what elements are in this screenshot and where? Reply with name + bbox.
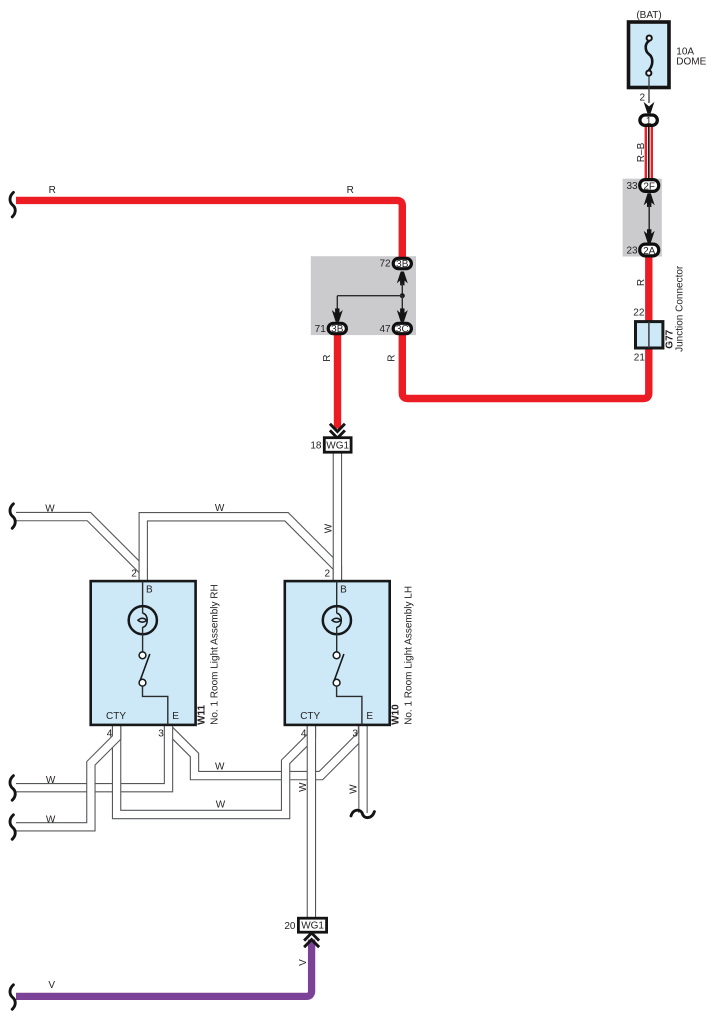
oval 2F — [640, 180, 659, 192]
svg-text:V: V — [298, 959, 309, 966]
svg-text:No. 1 Room Light Assembly RH: No. 1 Room Light Assembly RH — [210, 584, 221, 725]
fuse box 10A DOME — [629, 22, 670, 88]
double chevron arrow into WG1/18 — [330, 424, 345, 438]
svg-text:B: B — [146, 585, 153, 596]
relay block internal line horizontal — [337, 295, 402, 297]
svg-text:V: V — [48, 980, 55, 991]
connector WG1 pin 18 — [324, 438, 351, 453]
svg-text:2A: 2A — [643, 246, 656, 257]
svg-text:W: W — [215, 762, 225, 773]
svg-text:CTY: CTY — [106, 711, 126, 722]
squiggle end of red wire — [10, 192, 15, 217]
relay block internal arrow down to 3B/71 — [332, 308, 343, 322]
svg-text:4: 4 — [301, 729, 307, 740]
junction block internal arrow up to 2F — [644, 193, 655, 207]
svg-text:W: W — [348, 784, 359, 794]
svg-text:WG1: WG1 — [326, 441, 349, 452]
svg-text:3B: 3B — [396, 259, 409, 270]
oval 3C pin 47 — [393, 323, 411, 333]
squiggle1 end of W wire — [10, 776, 15, 801]
svg-text:W: W — [46, 775, 56, 786]
wire R main horizontal to 3B/72 — [16, 200, 402, 257]
svg-text:W: W — [215, 503, 225, 514]
junction block internal arrow down to 2A — [644, 229, 655, 243]
svg-text:2F: 2F — [643, 181, 655, 192]
wire R from 3C/47 down, right, up to 2A — [402, 256, 649, 399]
wire V purple from squiggle to WG1/20 — [16, 940, 312, 997]
oval 3B pin 71 — [328, 323, 346, 333]
W11 internal line bulb to switch — [142, 627, 144, 652]
svg-text:E: E — [172, 711, 179, 722]
svg-text:Junction Connector: Junction Connector — [675, 265, 686, 352]
W10 internal line B — [336, 581, 338, 613]
svg-text:R–B: R–B — [636, 142, 647, 162]
W11 bulb — [129, 606, 157, 634]
svg-text:R: R — [636, 279, 647, 286]
W10 switch — [333, 652, 344, 686]
W10 bulb — [323, 606, 351, 634]
W10 internal line bulb to switch — [336, 627, 338, 652]
wire W W10 pin3 to ground squiggle — [358, 726, 367, 813]
svg-text:W: W — [298, 782, 309, 792]
svg-text:3C: 3C — [396, 324, 409, 335]
svg-text:W11: W11 — [197, 704, 208, 724]
W11 internal line to E — [143, 686, 168, 725]
relay block internal arrow down to 3C/47 — [397, 308, 408, 322]
svg-text:No. 1 Room Light Assembly LH: No. 1 Room Light Assembly LH — [404, 586, 415, 725]
svg-text:R: R — [49, 185, 56, 196]
svg-text:1: 1 — [646, 116, 652, 127]
svg-text:33: 33 — [626, 181, 638, 192]
svg-text:DOME: DOME — [676, 57, 706, 68]
squiggle end of V wire — [10, 985, 15, 1010]
fuse element symbol — [646, 36, 653, 76]
relay block gray box (3B/3C) — [311, 256, 416, 335]
svg-text:WG1: WG1 — [301, 921, 324, 932]
relay block internal line to 3C/47 — [401, 296, 403, 311]
W11 internal line B — [142, 581, 144, 613]
svg-text:W: W — [216, 800, 226, 811]
svg-text:W: W — [46, 815, 56, 826]
room light assembly LH box W10 — [285, 581, 390, 725]
wire W CTY-interconnect W11 pin4 to W10 pin4 — [117, 726, 312, 815]
male connector arrow above connector 1 — [644, 102, 655, 114]
svg-text:(BAT): (BAT) — [636, 10, 661, 21]
svg-text:R: R — [387, 355, 398, 362]
svg-text:CTY: CTY — [300, 711, 320, 722]
svg-text:R: R — [347, 185, 354, 196]
relay block junction dot — [400, 293, 405, 298]
svg-text:2: 2 — [325, 568, 331, 579]
wire W E-interconnect W11 pin3 to W10 pin3 — [169, 726, 363, 776]
svg-text:R: R — [322, 355, 333, 362]
svg-text:21: 21 — [634, 353, 646, 364]
wire W squiggle2 to W11 pin4 — [16, 726, 117, 827]
relay block internal line to 3B/71 — [336, 296, 338, 311]
double chevron arrow into WG1/20 — [304, 933, 319, 947]
junction block internal line — [648, 205, 650, 232]
squiggle end below W10 pin3 — [351, 810, 374, 817]
wire R-B from connector 1 to 2F — [645, 127, 653, 180]
oval 3B pin 72 — [393, 258, 411, 268]
svg-text:2: 2 — [131, 568, 137, 579]
svg-text:22: 22 — [633, 308, 645, 319]
wire from fuse pin 2 — [648, 76, 650, 103]
svg-text:23: 23 — [626, 246, 638, 257]
wire W squiggle3 to W11 pin2 — [16, 517, 143, 582]
relay block internal line vertical — [401, 283, 403, 296]
squiggle end of W wire to pin2 — [10, 504, 15, 529]
connector 1 oval — [640, 115, 657, 125]
wire W WG1/18 to W10 pin2 — [333, 452, 342, 581]
wire W squiggle1 to W11 pin3 — [16, 726, 169, 788]
svg-text:20: 20 — [284, 921, 296, 932]
svg-text:18: 18 — [310, 441, 322, 452]
squiggle2 end of W wire — [10, 815, 15, 840]
svg-text:71: 71 — [315, 324, 327, 335]
svg-text:3B: 3B — [331, 324, 344, 335]
svg-text:72: 72 — [379, 258, 391, 269]
svg-text:W: W — [45, 503, 55, 514]
wire W W10 pin4 down to WG1/20 — [307, 726, 316, 918]
svg-text:E: E — [366, 711, 373, 722]
svg-text:3: 3 — [352, 729, 358, 740]
svg-text:3: 3 — [158, 729, 164, 740]
svg-text:W: W — [323, 523, 334, 533]
svg-text:W10: W10 — [391, 704, 402, 725]
W11 switch — [139, 652, 150, 686]
relay block internal arrow up to 3B/72 — [397, 272, 408, 286]
room light assembly RH box W11 — [91, 581, 196, 725]
wire W W11 pin2 to W10 pin2 — [143, 517, 337, 582]
wire R from 3B/71 down to WG1 — [334, 335, 341, 429]
svg-text:2: 2 — [639, 93, 645, 104]
svg-text:4: 4 — [107, 729, 113, 740]
svg-text:47: 47 — [379, 324, 391, 335]
junction block gray box (2F/2A) — [623, 179, 662, 257]
connector WG1 pin 20 — [298, 918, 326, 932]
oval 2A — [640, 244, 659, 256]
svg-text:B: B — [340, 585, 347, 596]
junction connector G77 box — [636, 322, 663, 348]
W10 internal line to E — [337, 686, 362, 725]
